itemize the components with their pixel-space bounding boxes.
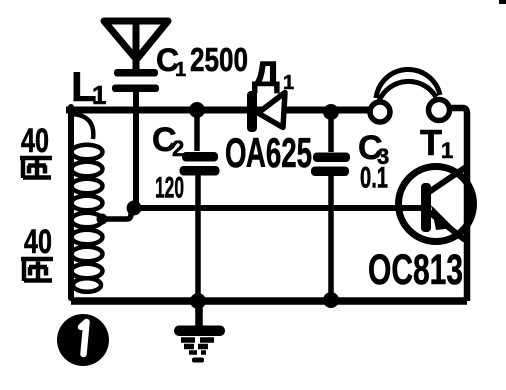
- transistor Q1 circle: [399, 167, 474, 242]
- ground: [195, 305, 203, 327]
- wire left rail: [68, 107, 74, 298]
- svg-text:2: 2: [172, 136, 184, 161]
- svg-text:Д: Д: [252, 55, 280, 94]
- node C3 bottom dot: [323, 292, 339, 308]
- capacitor C2: [194, 110, 200, 151]
- transistor base bar: [421, 183, 431, 232]
- svg-text:1: 1: [92, 80, 106, 110]
- transistor emitter: [429, 212, 465, 240]
- headphones: [376, 69, 440, 101]
- node C2 top dot: [189, 102, 205, 118]
- wire middle bus (tap to base): [134, 205, 421, 211]
- transistor collector: [429, 167, 466, 192]
- svg-text:ОА625: ОА625: [225, 129, 312, 176]
- capacitor C3: [328, 112, 334, 152]
- svg-text:1: 1: [441, 138, 453, 163]
- label turns character lower: [21, 259, 53, 281]
- label turns character upper: [20, 158, 52, 178]
- inductor L1 coil: [71, 114, 103, 292]
- wire right rail: [448, 108, 467, 301]
- corner speck: [499, 0, 506, 4]
- svg-text:1: 1: [175, 59, 186, 81]
- node coil tap dot: [97, 214, 108, 225]
- svg-text:T: T: [420, 122, 442, 163]
- wire top horizontal bus: [66, 107, 369, 114]
- figure number 1 badge: [57, 314, 109, 366]
- node ground junction dot: [190, 293, 206, 309]
- node C3 top dot: [323, 104, 339, 120]
- wire bottom rail: [71, 297, 467, 305]
- transistor emitter arrow: [431, 205, 454, 230]
- diode D1: [247, 91, 257, 132]
- svg-text:120: 120: [155, 172, 184, 205]
- svg-text:0.1: 0.1: [360, 162, 388, 195]
- node tap junction dot: [127, 201, 142, 216]
- svg-text:2500: 2500: [190, 41, 248, 78]
- svg-text:ОС813: ОС813: [368, 246, 463, 294]
- svg-text:40: 40: [21, 122, 49, 160]
- wire coil tap: [102, 210, 131, 219]
- capacitor C1: [114, 69, 158, 77]
- antenna: [104, 21, 168, 70]
- svg-text:40: 40: [24, 223, 52, 261]
- svg-text:1: 1: [283, 72, 294, 94]
- wire C1 to tap junction: [133, 92, 139, 208]
